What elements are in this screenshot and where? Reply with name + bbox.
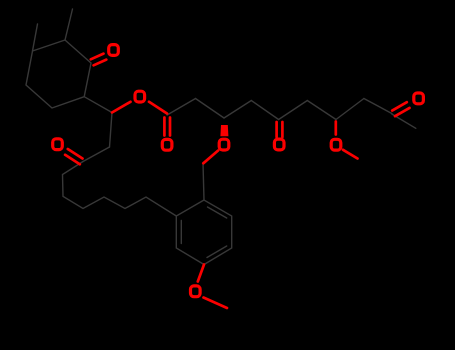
main chain C4' to C5' ketone (251, 101, 278, 120)
benzene ring PMB (176, 200, 231, 265)
ketone C=O on ring (double bond) (91, 54, 104, 60)
aryl C-O bond of anisole (198, 265, 204, 282)
macrocycle alkyl chain to benzene meta position (63, 162, 177, 217)
methyl on C9' carbonyl (392, 114, 416, 128)
main chain C1' to C2' (167, 99, 195, 116)
C7'-OMe single bond (334, 122, 337, 135)
aromatic double bond upper right edge (208, 207, 227, 218)
OMe methyl bond (343, 150, 358, 159)
O label anisole OMe (191, 286, 201, 297)
O label OMe (331, 139, 341, 150)
methyl on ring C3 (33, 24, 38, 51)
main chain C3' to C4' (224, 101, 251, 119)
wire benzylic CH2 to ipso C (203, 163, 204, 200)
macrocycle ketone C=O double bond (68, 149, 83, 159)
O label OPMB benzyl ether (219, 139, 229, 150)
O-CH2 bond of PMB benzyl ether (203, 151, 218, 164)
ester O single bond to carbinol CH (112, 102, 131, 113)
aromatic double bond lower right edge (207, 246, 227, 258)
wedge bond stereocenter to OPMB (220, 125, 228, 136)
O label chain ketone (274, 139, 284, 150)
methyl on ring C2 (65, 9, 73, 40)
main chain C8' to C9' carbonyl (364, 99, 392, 114)
ester C=O double bond (163, 118, 166, 136)
wire CH to CH2 (110, 113, 113, 148)
main chain C5' to C6' (279, 101, 308, 120)
wire ring to carbinol CH (84, 97, 112, 113)
wire CH2 to macrocycle ketone C (83, 147, 110, 162)
right ketone C=O double bond (392, 102, 407, 110)
O label ring ketone (109, 45, 119, 56)
O label ester carbonyl (162, 139, 172, 150)
ester O single bond to carbonyl (149, 102, 167, 114)
main chain C2' to C3' stereocenter (196, 99, 225, 119)
aromatic double bond left edge (180, 221, 182, 244)
anisole OMe methyl bond (204, 298, 228, 309)
O label right ketone (414, 93, 424, 104)
cyclohexanone ring (26, 40, 91, 108)
main chain C7' to C8' (336, 99, 364, 120)
main chain C6' to C7' (307, 101, 336, 120)
O label ester bridging O (135, 91, 145, 102)
chain ketone C=O double bond (275, 122, 278, 137)
O label macrocycle ketone (53, 139, 63, 150)
